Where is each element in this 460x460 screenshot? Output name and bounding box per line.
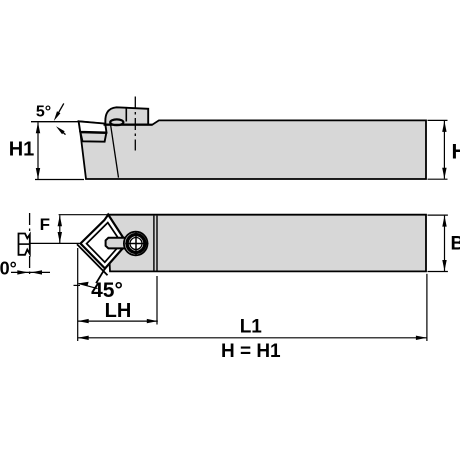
diamond insert outer [81, 215, 128, 269]
pocket surface line under clamp [104, 124, 153, 126]
0 deg arrows [11, 270, 50, 274]
screw inner circle [130, 238, 142, 250]
screw crosshair vertical [135, 232, 137, 254]
svg-text:0°: 0° [0, 258, 17, 278]
svg-text:H1: H1 [9, 139, 35, 161]
tip reference horizontal line [30, 242, 80, 244]
5 deg lower arrow [56, 126, 66, 134]
F extension line (top, extends bar edge left) [59, 214, 108, 216]
clamp boss circle [124, 232, 148, 256]
LH left extension line [77, 248, 79, 341]
svg-text:B: B [451, 234, 460, 255]
svg-text:L1: L1 [240, 317, 263, 338]
svg-text:H = H1: H = H1 [221, 341, 281, 362]
45 deg leader arrow [74, 282, 98, 289]
H dimension extension ticks right [428, 120, 448, 179]
LH right extension line [156, 276, 158, 325]
5 deg upper leader with arrow [54, 103, 64, 121]
45 deg extension of insert edge [96, 267, 106, 283]
insert section spool profile [19, 234, 30, 255]
insert thickness line (lower-left double edge) [77, 244, 108, 275]
LH dimension line [78, 319, 158, 323]
clamp lever (plan view) [106, 238, 129, 249]
clamp (top, side view) [105, 107, 148, 124]
svg-text:F: F [40, 215, 50, 234]
L1 right extension line [426, 274, 428, 341]
svg-text:5°: 5° [36, 104, 51, 121]
screw crosshair horizontal [125, 243, 148, 245]
5 deg reference horizontal line [31, 121, 79, 123]
F dimension line [58, 215, 62, 243]
svg-text:H: H [452, 140, 460, 163]
B dimension line [442, 216, 446, 271]
insert (side view, white) [79, 121, 107, 132]
clamp nose ellipse [110, 119, 123, 125]
H dimension line [442, 121, 446, 179]
B dimension extension ticks [428, 215, 448, 271]
shim under insert (gray) [80, 132, 106, 141]
pocket back slant line [111, 124, 119, 177]
L1 dimension line [78, 336, 427, 340]
svg-text:LH: LH [105, 300, 132, 322]
H1 dimension line [36, 122, 40, 179]
svg-text:45°: 45° [91, 279, 123, 302]
diamond insert inner [87, 223, 122, 263]
insert section centerline (dash-dot) [29, 213, 31, 277]
pocket end double lines [154, 216, 157, 271]
screw head ring [127, 235, 145, 253]
screw centerline (dash-dot) top view [134, 97, 136, 151]
holder body top view [79, 120, 426, 179]
bottom extension line, top view left [35, 179, 84, 181]
holder body bottom view [108, 215, 426, 272]
